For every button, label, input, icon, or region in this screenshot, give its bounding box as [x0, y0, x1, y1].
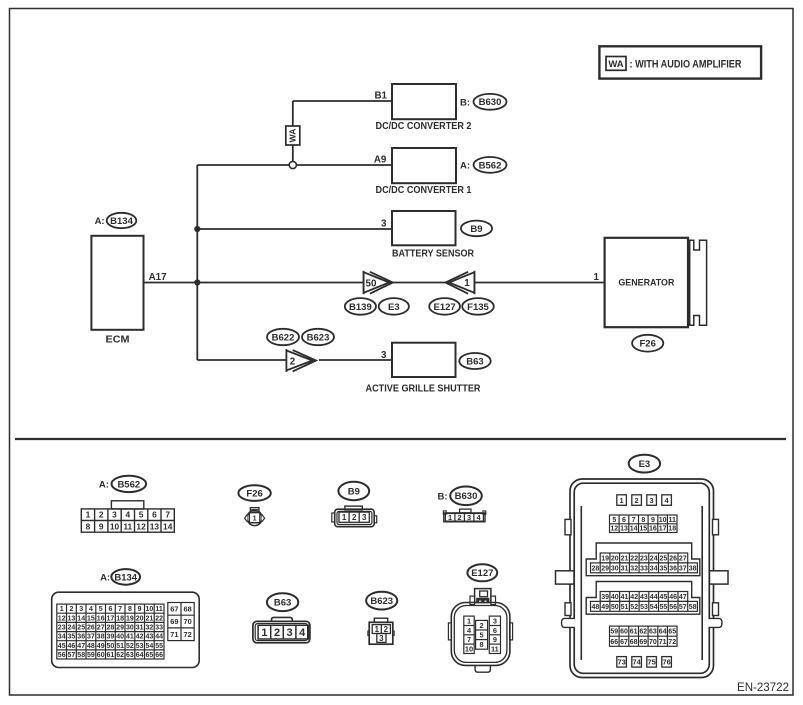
- svg-text:17: 17: [107, 615, 115, 622]
- svg-text:42: 42: [136, 634, 144, 641]
- svg-text:5: 5: [612, 517, 616, 524]
- svg-text:B63: B63: [274, 598, 291, 609]
- svg-text:71: 71: [170, 630, 178, 639]
- svg-text:65: 65: [668, 629, 676, 636]
- svg-text:7: 7: [632, 517, 636, 524]
- svg-text:3: 3: [493, 616, 497, 625]
- svg-text:7: 7: [118, 606, 122, 613]
- svg-text:10: 10: [659, 517, 667, 524]
- svg-text:E127: E127: [434, 302, 456, 313]
- svg-text:53: 53: [136, 643, 144, 650]
- svg-text:9: 9: [99, 521, 104, 531]
- svg-text:28: 28: [592, 565, 600, 572]
- svg-text:7: 7: [165, 510, 170, 520]
- svg-text:2: 2: [480, 621, 484, 630]
- svg-text:63: 63: [649, 629, 657, 636]
- svg-text:49: 49: [97, 643, 105, 650]
- svg-text:54: 54: [650, 604, 658, 611]
- svg-text:56: 56: [58, 652, 66, 659]
- svg-text:59: 59: [610, 629, 618, 636]
- svg-text:33: 33: [155, 625, 163, 632]
- svg-text:1: 1: [86, 510, 91, 520]
- svg-text:B139: B139: [349, 302, 372, 313]
- svg-text:26: 26: [87, 625, 95, 632]
- svg-text:28: 28: [107, 625, 115, 632]
- svg-text:65: 65: [146, 652, 154, 659]
- svg-text:19: 19: [126, 615, 134, 622]
- svg-text:6: 6: [622, 517, 626, 524]
- svg-text:46: 46: [669, 594, 677, 601]
- svg-text:42: 42: [630, 594, 638, 601]
- svg-text:35: 35: [68, 634, 76, 641]
- svg-text:WA: WA: [608, 59, 623, 70]
- svg-text:16: 16: [649, 526, 657, 533]
- svg-text:BATTERY SENSOR: BATTERY SENSOR: [392, 248, 474, 259]
- svg-text:2: 2: [274, 627, 280, 639]
- svg-text:64: 64: [659, 629, 667, 636]
- svg-text:62: 62: [116, 652, 124, 659]
- svg-text:24: 24: [68, 625, 76, 632]
- svg-text:44: 44: [650, 594, 658, 601]
- svg-text:22: 22: [630, 556, 638, 563]
- svg-text:45: 45: [660, 594, 668, 601]
- svg-text:11: 11: [123, 521, 132, 531]
- svg-text:1: 1: [467, 616, 471, 625]
- svg-text:58: 58: [689, 604, 697, 611]
- svg-text:B134: B134: [110, 216, 133, 227]
- svg-text:38: 38: [689, 565, 697, 572]
- svg-text:16: 16: [97, 615, 105, 622]
- svg-text:37: 37: [87, 634, 95, 641]
- svg-text:: WITH AUDIO AMPLIFIER: : WITH AUDIO AMPLIFIER: [630, 58, 742, 70]
- svg-text:50: 50: [107, 643, 115, 650]
- svg-text:66: 66: [610, 639, 618, 646]
- svg-text:1: 1: [60, 606, 64, 613]
- svg-text:17: 17: [659, 526, 667, 533]
- svg-text:26: 26: [669, 556, 677, 563]
- svg-text:1: 1: [375, 625, 380, 634]
- svg-text:43: 43: [146, 634, 154, 641]
- svg-text:39: 39: [601, 594, 609, 601]
- svg-text:67: 67: [170, 605, 178, 614]
- svg-text:18: 18: [668, 526, 676, 533]
- svg-text:41: 41: [126, 634, 134, 641]
- svg-text:69: 69: [639, 639, 647, 646]
- svg-text:33: 33: [640, 565, 648, 572]
- svg-text:E3: E3: [388, 302, 400, 313]
- svg-text:2: 2: [352, 513, 357, 522]
- svg-text:3: 3: [650, 496, 654, 505]
- svg-text:3: 3: [79, 606, 83, 613]
- svg-text:A:: A:: [99, 480, 109, 491]
- svg-text:75: 75: [647, 658, 655, 667]
- svg-text:B622: B622: [272, 332, 295, 343]
- svg-text:ECM: ECM: [106, 334, 130, 345]
- svg-text:51: 51: [116, 643, 124, 650]
- svg-text:40: 40: [116, 634, 124, 641]
- svg-text:GENERATOR: GENERATOR: [618, 278, 674, 288]
- svg-text:B623: B623: [307, 332, 330, 343]
- svg-text:60: 60: [620, 629, 628, 636]
- svg-text:67: 67: [620, 639, 628, 646]
- svg-text:49: 49: [601, 604, 609, 611]
- svg-text:31: 31: [136, 625, 144, 632]
- svg-text:F135: F135: [467, 302, 489, 313]
- svg-text:5: 5: [99, 606, 103, 613]
- svg-text:3: 3: [112, 510, 117, 520]
- svg-text:56: 56: [669, 604, 677, 611]
- svg-text:11: 11: [491, 645, 499, 654]
- svg-text:74: 74: [632, 658, 641, 667]
- svg-text:34: 34: [58, 634, 66, 641]
- svg-text:73: 73: [617, 658, 625, 667]
- svg-text:4: 4: [89, 606, 93, 613]
- svg-text:21: 21: [146, 615, 154, 622]
- svg-text:46: 46: [68, 643, 76, 650]
- svg-text:B630: B630: [479, 97, 502, 108]
- svg-text:3: 3: [287, 627, 293, 639]
- svg-text:B630: B630: [455, 491, 478, 502]
- svg-text:21: 21: [621, 556, 629, 563]
- svg-text:62: 62: [639, 629, 647, 636]
- svg-text:32: 32: [146, 625, 154, 632]
- svg-text:31: 31: [621, 565, 629, 572]
- svg-text:A:: A:: [100, 572, 110, 583]
- svg-text:61: 61: [630, 629, 638, 636]
- svg-text:25: 25: [660, 556, 668, 563]
- svg-text:43: 43: [640, 594, 648, 601]
- svg-text:50: 50: [366, 279, 377, 290]
- svg-text:F26: F26: [640, 339, 656, 350]
- svg-text:B1: B1: [374, 91, 387, 102]
- svg-text:24: 24: [650, 556, 658, 563]
- svg-text:B562: B562: [117, 479, 140, 490]
- svg-text:19: 19: [601, 556, 609, 563]
- svg-text:2: 2: [69, 606, 73, 613]
- svg-text:30: 30: [611, 565, 619, 572]
- svg-text:1: 1: [448, 513, 452, 522]
- svg-text:12: 12: [610, 526, 618, 533]
- svg-text:29: 29: [601, 565, 609, 572]
- svg-text:1: 1: [342, 513, 347, 522]
- svg-text:8: 8: [641, 517, 645, 524]
- svg-text:A:: A:: [95, 216, 105, 227]
- svg-text:6: 6: [108, 606, 112, 613]
- svg-text:B:: B:: [437, 491, 447, 502]
- svg-text:41: 41: [621, 594, 629, 601]
- svg-text:69: 69: [170, 617, 178, 626]
- svg-text:6: 6: [493, 626, 497, 635]
- svg-text:27: 27: [679, 556, 687, 563]
- svg-text:58: 58: [77, 652, 85, 659]
- svg-text:20: 20: [136, 615, 144, 622]
- svg-text:1: 1: [594, 272, 600, 283]
- svg-text:WA: WA: [288, 129, 298, 143]
- svg-text:54: 54: [146, 643, 154, 650]
- svg-text:B134: B134: [114, 572, 137, 583]
- svg-text:37: 37: [679, 565, 687, 572]
- svg-text:11: 11: [155, 606, 163, 613]
- svg-text:39: 39: [107, 634, 115, 641]
- svg-text:10: 10: [110, 521, 120, 531]
- svg-text:76: 76: [662, 658, 670, 667]
- svg-text:4: 4: [299, 627, 306, 639]
- svg-text:53: 53: [640, 604, 648, 611]
- svg-text:1: 1: [253, 515, 257, 522]
- svg-text:72: 72: [668, 639, 676, 646]
- svg-text:2: 2: [290, 357, 296, 368]
- svg-text:1: 1: [620, 496, 624, 505]
- svg-text:8: 8: [86, 521, 91, 531]
- svg-text:1: 1: [261, 627, 267, 639]
- svg-text:14: 14: [77, 615, 85, 622]
- svg-text:B:: B:: [460, 97, 470, 108]
- svg-text:57: 57: [68, 652, 76, 659]
- svg-text:3: 3: [467, 513, 471, 522]
- svg-text:2: 2: [99, 510, 104, 520]
- svg-text:3: 3: [381, 219, 387, 230]
- svg-text:4: 4: [125, 510, 130, 520]
- svg-text:1: 1: [464, 278, 470, 289]
- svg-text:12: 12: [58, 615, 66, 622]
- svg-text:38: 38: [97, 634, 105, 641]
- svg-text:47: 47: [679, 594, 687, 601]
- svg-text:22: 22: [155, 615, 163, 622]
- svg-text:B9: B9: [348, 486, 360, 497]
- svg-text:72: 72: [183, 630, 191, 639]
- svg-text:52: 52: [630, 604, 638, 611]
- svg-text:DC/DC CONVERTER 1: DC/DC CONVERTER 1: [376, 185, 472, 196]
- svg-text:23: 23: [58, 625, 66, 632]
- svg-text:29: 29: [116, 625, 124, 632]
- svg-text:63: 63: [126, 652, 134, 659]
- svg-text:44: 44: [155, 634, 163, 641]
- svg-text:60: 60: [97, 652, 105, 659]
- svg-text:9: 9: [493, 635, 497, 644]
- svg-text:2: 2: [458, 513, 462, 522]
- svg-text:3: 3: [379, 634, 384, 643]
- svg-text:55: 55: [660, 604, 668, 611]
- svg-text:52: 52: [126, 643, 134, 650]
- svg-text:36: 36: [77, 634, 85, 641]
- svg-text:B63: B63: [466, 356, 483, 367]
- svg-text:57: 57: [679, 604, 687, 611]
- svg-text:2: 2: [384, 625, 389, 634]
- svg-text:50: 50: [611, 604, 619, 611]
- svg-text:10: 10: [465, 645, 473, 654]
- svg-text:E127: E127: [471, 568, 493, 579]
- svg-text:23: 23: [640, 556, 648, 563]
- svg-text:18: 18: [116, 615, 124, 622]
- svg-text:3: 3: [362, 513, 367, 522]
- svg-text:35: 35: [660, 565, 668, 572]
- svg-text:14: 14: [630, 526, 638, 533]
- svg-text:68: 68: [630, 639, 638, 646]
- svg-text:70: 70: [649, 639, 657, 646]
- svg-text:13: 13: [620, 526, 628, 533]
- svg-text:40: 40: [611, 594, 619, 601]
- svg-text:51: 51: [621, 604, 629, 611]
- svg-text:F26: F26: [246, 489, 262, 500]
- svg-text:EN-23722: EN-23722: [737, 682, 789, 694]
- svg-text:A17: A17: [149, 272, 168, 283]
- svg-text:27: 27: [97, 625, 105, 632]
- svg-text:9: 9: [138, 606, 142, 613]
- svg-text:A:: A:: [460, 160, 470, 171]
- svg-text:10: 10: [146, 606, 154, 613]
- svg-text:61: 61: [107, 652, 115, 659]
- svg-text:70: 70: [183, 617, 191, 626]
- svg-text:13: 13: [68, 615, 76, 622]
- svg-text:12: 12: [136, 521, 146, 531]
- svg-text:6: 6: [152, 510, 157, 520]
- svg-text:30: 30: [126, 625, 134, 632]
- svg-text:B623: B623: [370, 596, 393, 607]
- svg-text:B9: B9: [470, 224, 482, 235]
- svg-text:34: 34: [650, 565, 658, 572]
- svg-text:20: 20: [611, 556, 619, 563]
- svg-text:7: 7: [467, 635, 471, 644]
- svg-text:64: 64: [136, 652, 144, 659]
- svg-text:8: 8: [128, 606, 132, 613]
- svg-text:71: 71: [659, 639, 667, 646]
- svg-text:48: 48: [592, 604, 600, 611]
- svg-text:5: 5: [139, 510, 144, 520]
- svg-text:8: 8: [480, 640, 484, 649]
- svg-text:DC/DC CONVERTER 2: DC/DC CONVERTER 2: [376, 121, 472, 132]
- svg-text:45: 45: [58, 643, 66, 650]
- svg-text:25: 25: [77, 625, 85, 632]
- svg-text:3: 3: [381, 350, 387, 361]
- svg-text:55: 55: [155, 643, 163, 650]
- svg-text:13: 13: [150, 521, 160, 531]
- svg-text:2: 2: [635, 496, 639, 505]
- svg-text:15: 15: [639, 526, 647, 533]
- svg-text:11: 11: [668, 517, 676, 524]
- svg-text:A9: A9: [374, 154, 387, 165]
- svg-text:E3: E3: [639, 459, 651, 470]
- svg-text:14: 14: [163, 521, 173, 531]
- svg-text:48: 48: [87, 643, 95, 650]
- svg-text:59: 59: [87, 652, 95, 659]
- svg-text:15: 15: [87, 615, 95, 622]
- svg-text:32: 32: [630, 565, 638, 572]
- svg-text:B562: B562: [479, 160, 502, 171]
- svg-text:47: 47: [77, 643, 85, 650]
- svg-text:9: 9: [651, 517, 655, 524]
- svg-text:ACTIVE GRILLE SHUTTER: ACTIVE GRILLE SHUTTER: [366, 384, 481, 395]
- svg-text:36: 36: [669, 565, 677, 572]
- svg-text:66: 66: [155, 652, 163, 659]
- svg-text:5: 5: [480, 631, 484, 640]
- svg-text:68: 68: [183, 605, 191, 614]
